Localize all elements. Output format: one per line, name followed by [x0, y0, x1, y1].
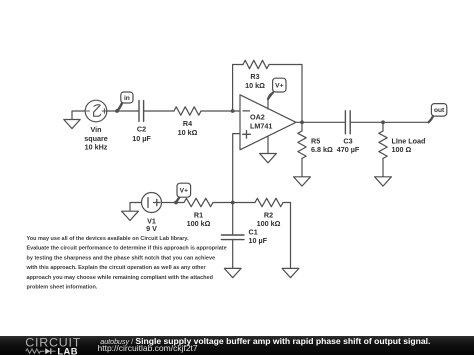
- footer bar: [0, 336, 474, 355]
- label C3: [337, 136, 360, 154]
- node line load junction: [381, 120, 385, 124]
- note text block: [26, 236, 227, 291]
- svg-text:10 kΩ: 10 kΩ: [245, 81, 265, 90]
- flag in: [117, 92, 133, 111]
- wire R5 to ground: [301, 158, 303, 176]
- logo diode symbol: [45, 348, 55, 354]
- resistor R2: [255, 198, 283, 206]
- wire op-amp output to C3: [296, 121, 345, 123]
- wire bias junction to op-amp non-inverting input: [233, 134, 240, 203]
- label flag V+ bias: [180, 188, 188, 195]
- op-amp OA2: [240, 95, 296, 150]
- svg-text:V+: V+: [180, 188, 188, 195]
- flag out: [429, 104, 447, 123]
- svg-text:LM741: LM741: [250, 122, 272, 131]
- svg-text:C3: C3: [343, 136, 352, 145]
- svg-text:in: in: [124, 95, 130, 102]
- svg-text:R2: R2: [264, 210, 273, 219]
- label R5: [311, 136, 333, 154]
- label R4: [178, 119, 198, 137]
- node output junction: [300, 120, 304, 124]
- wire C1 to ground: [232, 240, 234, 269]
- svg-text:problem sheet information.: problem sheet information.: [27, 285, 98, 291]
- svg-text:R5: R5: [311, 136, 320, 145]
- wire R2 right to ground: [283, 203, 291, 269]
- wire V1 left to ground: [130, 203, 142, 212]
- ground (V1): [122, 211, 139, 220]
- logo LAB: [57, 345, 77, 355]
- svg-text:approach you may choose while: approach you may choose while remaining …: [27, 275, 213, 281]
- svg-text:R1: R1: [194, 210, 203, 219]
- node V+ junction: [174, 201, 178, 205]
- label flag in: [124, 95, 130, 102]
- footer title: [100, 336, 430, 346]
- resistor R1: [184, 198, 213, 206]
- flag V+ (op-amp supply): [268, 78, 286, 99]
- label C1: [249, 227, 268, 245]
- svg-text:OA2: OA2: [250, 112, 265, 121]
- svg-text:with this approach. Explain th: with this approach. Explain the circuit …: [26, 265, 207, 271]
- label OA2: [250, 112, 272, 130]
- svg-text:R3: R3: [250, 72, 259, 81]
- label R3: [245, 72, 265, 90]
- ground (Vin): [64, 120, 80, 129]
- label flag V+ op-amp: [275, 83, 283, 90]
- svg-text:C2: C2: [137, 125, 146, 134]
- svg-text:Evaluate the circuit performan: Evaluate the circuit performance to dete…: [27, 246, 227, 252]
- svg-text:LAB: LAB: [57, 345, 77, 355]
- ground (R2): [282, 268, 299, 277]
- resistor Line Load: [379, 131, 387, 158]
- svg-text:out: out: [434, 107, 445, 114]
- svg-text:9 V: 9 V: [146, 224, 157, 233]
- capacitor C2: [139, 101, 144, 122]
- wire Vin left to ground: [72, 111, 85, 120]
- wire feedback left vertical: [233, 65, 243, 112]
- node bias junction: [231, 201, 235, 205]
- capacitor C3: [345, 111, 350, 134]
- footer url: [98, 343, 198, 353]
- wire junction to Line Load: [382, 122, 384, 131]
- flag V+ (bias): [176, 183, 191, 202]
- svg-text:10 kΩ: 10 kΩ: [178, 128, 198, 137]
- resistor R3: [243, 60, 269, 68]
- node in junction: [115, 109, 119, 113]
- wire output to R5: [301, 122, 303, 131]
- svg-text:V+: V+: [275, 83, 283, 90]
- svg-text:C1: C1: [249, 227, 258, 236]
- label V1: [146, 216, 157, 233]
- label Line Load: [392, 136, 426, 154]
- resistor R4: [174, 107, 201, 115]
- capacitor C1: [221, 235, 244, 240]
- wire feedback right vertical to output: [269, 65, 302, 123]
- svg-text:6.8 kΩ: 6.8 kΩ: [311, 145, 333, 154]
- svg-text:LIne Load: LIne Load: [392, 136, 426, 145]
- wire C3 to out: [350, 121, 428, 123]
- label flag out: [434, 107, 445, 114]
- label R1: [187, 210, 211, 228]
- svg-text:R4: R4: [183, 119, 192, 128]
- svg-text:10 kHz: 10 kHz: [85, 142, 108, 151]
- logo CIRCUIT: [25, 336, 81, 350]
- svg-text:100 kΩ: 100 kΩ: [257, 219, 281, 228]
- wire R1 to R2: [213, 202, 255, 204]
- svg-text:100 kΩ: 100 kΩ: [187, 219, 211, 228]
- ground (C1): [224, 268, 241, 277]
- label R2: [257, 210, 281, 228]
- voltage source Vin: [85, 100, 107, 122]
- wire bias junction to C1: [232, 203, 234, 236]
- svg-text:470 µF: 470 µF: [337, 145, 360, 154]
- wire R4 to op-amp inverting input: [201, 110, 240, 112]
- resistor R5: [298, 131, 306, 158]
- svg-text:http://circuitlab.com/ckjf2t7: http://circuitlab.com/ckjf2t7: [98, 343, 198, 353]
- node inverting input junction: [231, 109, 235, 113]
- svg-text:by testing the sharpness and t: by testing the sharpness and the phase s…: [27, 255, 216, 261]
- svg-text:100 Ω: 100 Ω: [392, 145, 412, 154]
- wire op-amp V+ pin: [268, 94, 271, 109]
- wire Line Load to ground: [382, 158, 384, 176]
- wire op-amp V- pin: [267, 136, 269, 153]
- wire V1 to R1: [162, 202, 185, 204]
- logo resistor zigzag: [26, 349, 45, 354]
- voltage source V1: [142, 193, 162, 213]
- ground (Line Load): [375, 177, 392, 186]
- wire C2 to R4: [144, 110, 174, 112]
- svg-text:You may use all of the devices: You may use all of the devices available…: [27, 236, 190, 242]
- label C2: [132, 125, 151, 143]
- svg-text:10 µF: 10 µF: [132, 134, 151, 143]
- wire Vin to C2: [107, 110, 139, 112]
- ground (op-amp): [260, 154, 277, 163]
- ground (R5): [294, 177, 311, 186]
- label Vin: [84, 125, 108, 151]
- svg-text:10 µF: 10 µF: [249, 236, 268, 245]
